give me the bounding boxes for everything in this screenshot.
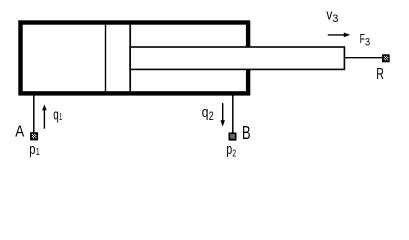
svg-text:p: p	[29, 141, 35, 158]
svg-text:3: 3	[332, 13, 338, 25]
svg-text:1: 1	[36, 147, 40, 158]
svg-text:q: q	[202, 104, 209, 121]
svg-text:2: 2	[209, 109, 214, 123]
svg-text:R: R	[376, 66, 384, 83]
svg-text:B: B	[242, 123, 251, 143]
svg-text:3: 3	[365, 36, 370, 48]
svg-text:A: A	[15, 123, 25, 140]
svg-text:1: 1	[59, 112, 62, 123]
svg-text:2: 2	[232, 149, 236, 160]
svg-text:q: q	[53, 106, 59, 123]
